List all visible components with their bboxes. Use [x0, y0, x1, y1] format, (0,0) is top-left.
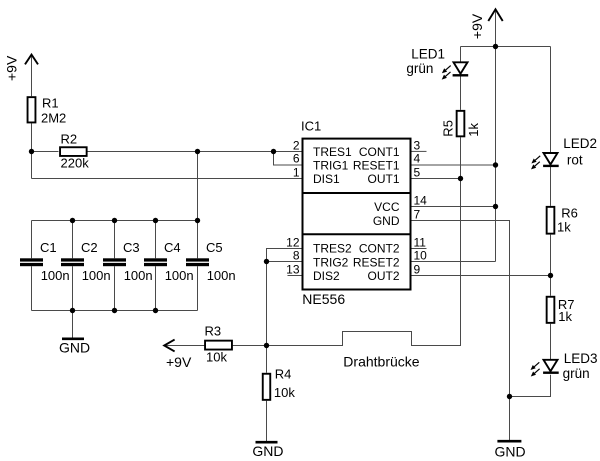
svg-text:C5: C5: [206, 240, 223, 255]
svg-text:1k: 1k: [558, 309, 572, 324]
svg-text:R2: R2: [61, 131, 78, 146]
op-amp IC1 NE556 outline: [303, 139, 411, 290]
svg-text:12: 12: [286, 236, 300, 250]
ground under R4: [256, 441, 278, 444]
wire TRES2/TRIG2 riser: [267, 249, 302, 346]
svg-text:220k: 220k: [61, 156, 90, 171]
node C2 bottom: [70, 308, 75, 313]
capacitor C2: [61, 258, 84, 266]
svg-text:10: 10: [414, 249, 428, 263]
wire pin8 TRIG2: [267, 261, 302, 263]
svg-text:CONT1: CONT1: [359, 145, 400, 159]
svg-text:grün: grün: [406, 61, 433, 76]
node C3 top: [112, 218, 117, 223]
svg-text:OUT1: OUT1: [367, 172, 399, 186]
wire top rail right: [461, 46, 551, 48]
wire +9V stem top-left: [31, 55, 33, 96]
wire pin3 CONT1 stub: [412, 150, 427, 152]
svg-text:100n: 100n: [124, 268, 153, 283]
svg-text:R3: R3: [205, 324, 222, 339]
wire R7 to LED3: [550, 324, 552, 360]
wire +9V arrow to R3: [163, 345, 205, 347]
svg-text:8: 8: [293, 249, 300, 263]
wire LED3 to GND net: [510, 375, 551, 397]
wire LED1 top lead: [460, 47, 462, 63]
svg-text:14: 14: [414, 194, 428, 208]
IC1 divider middle/bottom: [303, 233, 411, 235]
svg-text:10k: 10k: [206, 349, 227, 364]
svg-text:11: 11: [414, 236, 427, 250]
wire C3 leads: [114, 221, 116, 259]
node C2 top: [70, 218, 75, 223]
svg-text:rot: rot: [567, 153, 583, 168]
wire C2 leads: [72, 221, 74, 259]
svg-text:LED2: LED2: [563, 136, 597, 151]
resistor R3: [205, 341, 232, 350]
capacitor C4: [144, 258, 167, 266]
power +9V arrow top-left: [25, 55, 38, 65]
svg-text:RESET2: RESET2: [353, 255, 400, 269]
svg-text:6: 6: [293, 152, 300, 166]
wire DIS1 pin1 line: [32, 178, 302, 180]
svg-text:1k: 1k: [557, 220, 571, 235]
resistor R5: [457, 111, 465, 137]
wire cap bottom rail: [32, 310, 198, 312]
wire LED2 to R6: [550, 165, 552, 206]
wire +9V stem right: [495, 10, 497, 47]
wire C5 leads: [197, 221, 199, 259]
svg-text:2M2: 2M2: [41, 111, 66, 126]
node C4 top: [153, 218, 158, 223]
wire pin9 OUT2: [412, 275, 551, 277]
svg-text:CONT2: CONT2: [359, 242, 400, 256]
svg-text:LED3: LED3: [564, 351, 598, 366]
resistor R7: [547, 297, 555, 323]
svg-text:1: 1: [293, 166, 300, 180]
svg-text:100n: 100n: [165, 268, 194, 283]
resistor R4: [263, 374, 271, 400]
node RESET1 tap: [493, 162, 498, 167]
svg-text:1k: 1k: [466, 122, 481, 136]
wire R4 bottom lead to GND: [266, 401, 268, 441]
wire R6 to R7: [550, 235, 552, 296]
svg-text:OUT2: OUT2: [367, 269, 399, 283]
wire pin5 OUT1: [412, 178, 461, 180]
svg-text:grün: grün: [563, 366, 590, 381]
svg-text:C2: C2: [81, 240, 98, 255]
svg-text:GND: GND: [373, 214, 400, 228]
wire R5 bottom: [460, 137, 462, 178]
svg-text:R1: R1: [42, 95, 59, 110]
svg-text:TRIG2: TRIG2: [313, 255, 349, 269]
svg-text:2: 2: [293, 139, 300, 153]
node TRIG1 tap: [271, 149, 276, 154]
node cap riser on R2 line: [195, 149, 200, 154]
ground bottom right: [497, 440, 521, 443]
svg-text:10k: 10k: [274, 385, 295, 400]
svg-text:LED1: LED1: [411, 47, 445, 62]
resistor R1: [28, 97, 36, 122]
svg-text:100n: 100n: [207, 268, 236, 283]
LED3: [531, 360, 559, 377]
capacitor C3: [103, 258, 126, 266]
power +9V arrow left (R3): [164, 340, 174, 352]
wire cap top rail: [32, 220, 198, 222]
node LED3 return: [507, 394, 512, 399]
svg-text:VCC: VCC: [374, 200, 400, 214]
capacitor C1: [20, 258, 43, 266]
node OUT2/R6/R7 junction: [548, 273, 553, 278]
wire cap bank riser: [197, 152, 199, 221]
node TRES2/TRIG2 join: [264, 259, 269, 264]
node C3 bottom: [112, 308, 117, 313]
svg-text:NE556: NE556: [302, 291, 345, 307]
wire R1 bottom to DIS1 corner: [31, 123, 33, 178]
svg-text:C4: C4: [164, 240, 181, 255]
svg-text:GND: GND: [494, 443, 525, 459]
svg-text:TRES2: TRES2: [313, 242, 352, 256]
wire pin7 GND to bottom right: [412, 221, 510, 442]
node OUT1/R5 junction: [458, 176, 463, 181]
svg-text:C3: C3: [123, 240, 140, 255]
wire pin13 DIS2 stub: [288, 275, 302, 277]
svg-text:R6: R6: [561, 205, 578, 220]
capacitor C5: [186, 258, 209, 266]
wire Drahtbruecke bridge to OUT1: [267, 179, 461, 346]
svg-text:7: 7: [414, 208, 421, 222]
svg-text:+9V: +9V: [4, 55, 20, 81]
svg-text:GND: GND: [252, 443, 283, 459]
wire R4 top lead: [266, 346, 268, 373]
node C4 bottom: [153, 308, 158, 313]
ground under capacitors: [62, 337, 84, 340]
svg-text:9: 9: [414, 263, 421, 277]
svg-text:R5: R5: [441, 120, 456, 137]
svg-text:100n: 100n: [82, 268, 111, 283]
svg-text:Drahtbrücke: Drahtbrücke: [343, 354, 419, 370]
wire R2 right to pin2 TRES1: [87, 151, 302, 153]
wire drop to GND under caps: [72, 311, 74, 338]
svg-text:GND: GND: [59, 340, 90, 356]
svg-text:100n: 100n: [41, 268, 70, 283]
node +9V top rail: [493, 44, 498, 49]
svg-text:TRIG1: TRIG1: [313, 159, 349, 173]
svg-text:C1: C1: [40, 240, 57, 255]
svg-text:IC1: IC1: [301, 119, 321, 134]
node VCC tap: [493, 204, 498, 209]
svg-text:+9V: +9V: [469, 13, 485, 39]
node R3/R4/bridge junction: [264, 343, 269, 348]
wire C4 leads: [155, 221, 157, 259]
wire pin6 TRIG1 drop: [274, 152, 302, 166]
wire pin11 CONT2 stub: [412, 248, 427, 250]
wire pin10 RESET2: [412, 261, 496, 263]
resistor R6: [547, 207, 555, 234]
wire R3 right lead: [232, 345, 267, 347]
wire VCC riser: [495, 47, 497, 262]
resistor R2: [60, 147, 87, 156]
power +9V arrow top-right: [488, 9, 502, 21]
svg-text:DIS1: DIS1: [313, 172, 340, 186]
wire pin14 VCC: [412, 206, 496, 208]
wire R5 top to LED1: [460, 76, 462, 110]
wire C1 leads: [31, 221, 33, 259]
LED2: [531, 153, 559, 169]
LED1: [442, 62, 469, 79]
node C5 top: [195, 218, 200, 223]
svg-text:TRES1: TRES1: [313, 145, 352, 159]
svg-text:3: 3: [414, 139, 421, 153]
wire pin4 RESET1: [412, 164, 496, 166]
svg-text:RESET1: RESET1: [353, 159, 400, 173]
svg-text:5: 5: [414, 166, 421, 180]
svg-text:R4: R4: [275, 367, 292, 382]
svg-text:13: 13: [286, 263, 300, 277]
svg-text:4: 4: [414, 152, 421, 166]
IC1 divider top/middle: [303, 192, 411, 194]
svg-text:+9V: +9V: [166, 354, 192, 370]
wire R2 left lead: [32, 151, 59, 153]
svg-text:DIS2: DIS2: [313, 269, 340, 283]
wire LED2 top lead: [550, 47, 552, 154]
node R1/R2 junction: [29, 149, 34, 154]
